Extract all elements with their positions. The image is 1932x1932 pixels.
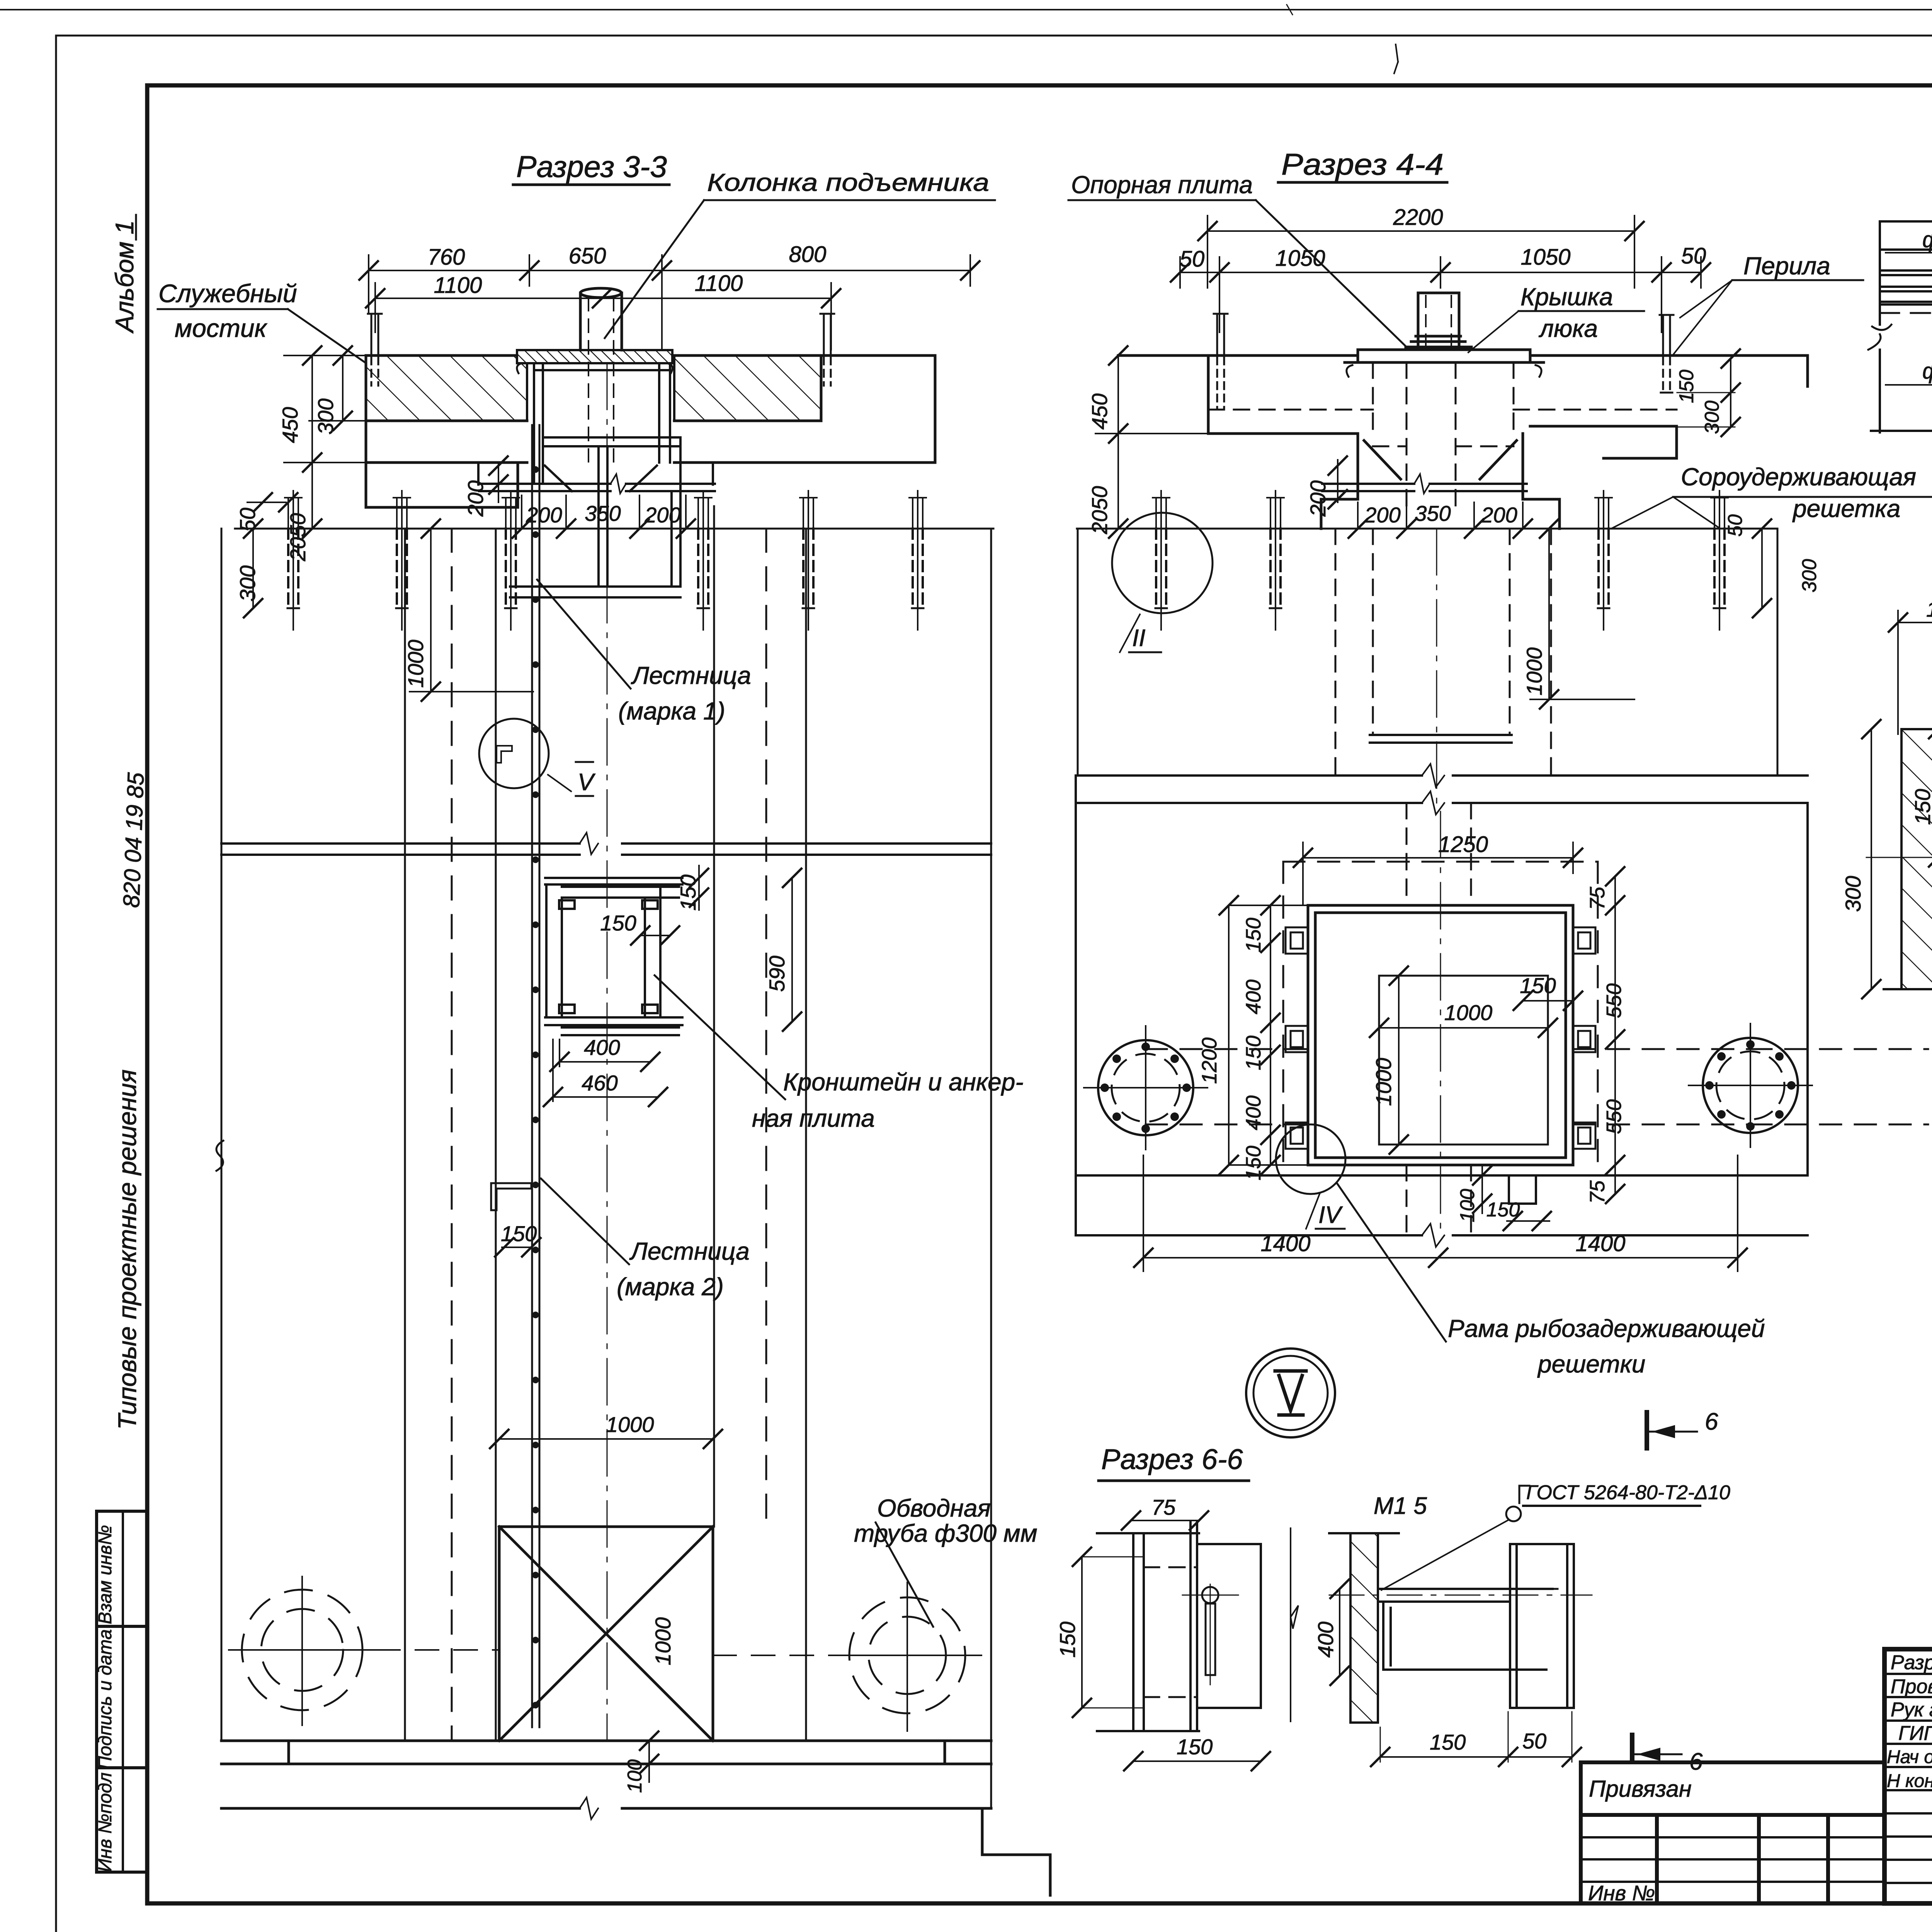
svg-text:100: 100 (624, 1759, 646, 1793)
svg-text:Инв №подл: Инв №подл (95, 1772, 116, 1872)
svg-text:1100: 1100 (695, 271, 743, 296)
svg-text:400: 400 (1242, 980, 1265, 1014)
svg-text:400: 400 (584, 1035, 620, 1060)
svg-text:150: 150 (1242, 1146, 1265, 1180)
svg-text:1000: 1000 (1444, 1000, 1493, 1025)
svg-text:Рама рыбозадерживающей: Рама рыбозадерживающей (1448, 1315, 1765, 1342)
svg-text:Сороудерживающая: Сороудерживающая (1681, 463, 1916, 491)
svg-text:75: 75 (1586, 886, 1609, 910)
svg-text:590: 590 (765, 956, 789, 992)
svg-text:решетки: решетки (1537, 1350, 1645, 1378)
svg-text:50: 50 (1180, 247, 1205, 272)
svg-text:300: 300 (235, 565, 260, 601)
svg-text:Кронштейн и анкер-: Кронштейн и анкер- (783, 1068, 1024, 1096)
svg-text:350: 350 (585, 501, 621, 526)
svg-text:150: 150 (1430, 1730, 1466, 1754)
svg-text:Разрез 3-3: Разрез 3-3 (516, 150, 667, 184)
svg-text:400: 400 (1313, 1622, 1338, 1658)
svg-text:150: 150 (1486, 1199, 1520, 1221)
svg-text:820 04 19 85: 820 04 19 85 (118, 772, 149, 908)
svg-text:200: 200 (463, 480, 488, 517)
svg-text:ГОСТ 5264-80-Т2-Δ10: ГОСТ 5264-80-Т2-Δ10 (1526, 1481, 1730, 1504)
svg-text:Крышка: Крышка (1520, 283, 1613, 311)
svg-text:мостик: мостик (175, 314, 268, 342)
svg-text:150: 150 (1055, 1622, 1080, 1658)
svg-text:ГИП: ГИП (1898, 1722, 1932, 1745)
svg-text:Лестница: Лестница (631, 662, 751, 689)
svg-text:460: 460 (582, 1071, 617, 1095)
svg-text:Разрез 6-6: Разрез 6-6 (1101, 1443, 1243, 1475)
svg-text:Привязан: Привязан (1589, 1776, 1692, 1802)
svg-text:Альбом 1: Альбом 1 (110, 220, 139, 334)
svg-text:2200: 2200 (1393, 205, 1443, 230)
svg-text:350: 350 (1415, 501, 1451, 526)
svg-text:Лестница: Лестница (629, 1237, 750, 1265)
svg-text:1100: 1100 (434, 273, 482, 298)
svg-text:300: 300 (1841, 876, 1865, 912)
svg-text:150: 150 (1242, 1036, 1265, 1070)
svg-text:Инв №: Инв № (1588, 1881, 1655, 1905)
svg-text:650: 650 (569, 243, 606, 269)
svg-text:150: 150 (1675, 370, 1698, 403)
svg-text:150: 150 (1520, 973, 1556, 998)
svg-text:400: 400 (1242, 1095, 1265, 1130)
svg-text:1000: 1000 (1371, 1058, 1396, 1106)
svg-text:люка: люка (1538, 315, 1598, 342)
svg-text:ная плита: ная плита (752, 1104, 875, 1132)
svg-text:ф160: ф160 (1922, 359, 1932, 384)
svg-text:Разраб: Разраб (1891, 1651, 1932, 1674)
svg-text:II: II (1132, 625, 1145, 651)
svg-text:300: 300 (1701, 401, 1723, 434)
svg-text:200: 200 (526, 503, 562, 527)
svg-text:(марка 1): (марка 1) (618, 697, 725, 725)
svg-text:(марка 2): (марка 2) (617, 1273, 724, 1301)
svg-text:150: 150 (501, 1221, 537, 1246)
svg-text:1000: 1000 (651, 1617, 675, 1665)
svg-text:IV: IV (1318, 1202, 1343, 1228)
svg-text:200: 200 (644, 503, 680, 527)
svg-text:Нач отд: Нач отд (1887, 1747, 1932, 1767)
svg-text:150: 150 (1177, 1735, 1213, 1759)
svg-text:V: V (578, 769, 596, 796)
svg-text:150: 150 (1910, 789, 1932, 825)
svg-text:300: 300 (1798, 559, 1821, 593)
svg-text:150: 150 (676, 874, 700, 910)
svg-text:200: 200 (1364, 503, 1400, 527)
svg-text:760: 760 (428, 245, 465, 270)
svg-text:200: 200 (1481, 503, 1517, 527)
svg-text:1250: 1250 (1438, 832, 1488, 857)
svg-text:Перила: Перила (1743, 252, 1830, 280)
svg-text:150: 150 (1242, 918, 1265, 952)
svg-text:550: 550 (1602, 983, 1626, 1018)
svg-text:100: 100 (1456, 1189, 1479, 1223)
svg-text:1050: 1050 (1520, 245, 1570, 270)
svg-text:Н контр: Н контр (1887, 1771, 1932, 1791)
svg-text:Разрез 4-4: Разрез 4-4 (1281, 147, 1444, 181)
svg-text:6: 6 (1689, 1748, 1703, 1775)
svg-text:Колонка подъемника: Колонка подъемника (707, 168, 989, 196)
svg-text:ф180: ф180 (1922, 227, 1932, 252)
svg-text:Типовые проектные решения: Типовые проектные решения (113, 1070, 141, 1430)
svg-text:50: 50 (1522, 1729, 1546, 1753)
svg-text:Рук гр: Рук гр (1891, 1699, 1932, 1721)
svg-text:М1 5: М1 5 (1374, 1493, 1427, 1519)
svg-text:1200: 1200 (1198, 1037, 1221, 1084)
svg-text:450: 450 (1087, 393, 1112, 429)
svg-text:Обводная: Обводная (877, 1494, 991, 1522)
svg-text:Пров: Пров (1891, 1675, 1932, 1698)
svg-text:1000: 1000 (606, 1412, 654, 1437)
svg-text:1400: 1400 (1260, 1231, 1310, 1256)
svg-text:Взам инв№: Взам инв№ (95, 1525, 116, 1624)
svg-text:50: 50 (1724, 514, 1747, 537)
svg-text:550: 550 (1602, 1099, 1626, 1134)
svg-text:150: 150 (600, 911, 636, 935)
svg-text:решетка: решетка (1792, 495, 1900, 522)
svg-text:50: 50 (1681, 243, 1706, 269)
svg-text:75: 75 (1586, 1180, 1609, 1204)
svg-text:Опорная плита: Опорная плита (1071, 171, 1253, 199)
svg-text:800: 800 (789, 242, 827, 267)
svg-text:1000: 1000 (1522, 647, 1546, 696)
svg-text:200: 200 (1306, 480, 1330, 517)
svg-text:1050: 1050 (1275, 246, 1325, 271)
svg-text:Служебный: Служебный (158, 279, 297, 308)
svg-text:300: 300 (313, 398, 338, 434)
svg-text:1400: 1400 (1575, 1231, 1625, 1256)
svg-text:1000: 1000 (403, 639, 428, 688)
svg-text:115: 115 (1926, 597, 1932, 621)
svg-text:6: 6 (1705, 1408, 1718, 1435)
svg-text:450: 450 (278, 407, 302, 443)
svg-text:75: 75 (1151, 1495, 1176, 1519)
svg-text:50: 50 (235, 508, 260, 532)
svg-text:Подпись и дата: Подпись и дата (95, 1629, 116, 1769)
svg-text:2050: 2050 (1087, 486, 1112, 535)
